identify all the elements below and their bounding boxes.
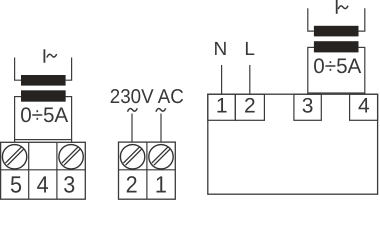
screw terminal 1 — [149, 145, 173, 169]
wire CT1 primary left lead — [15, 58, 21, 81]
wire A2 to device terminal 3 — [307, 93, 309, 94]
device pin number 1 — [216, 94, 228, 117]
screw terminal 2 — [120, 145, 144, 169]
wire CT2 primary right lead — [359, 8, 365, 31]
pin number 5 — [10, 172, 22, 198]
svg-text:4: 4 — [358, 94, 370, 117]
device pin number 4 — [358, 94, 370, 117]
CT2 secondary winding bar — [314, 41, 359, 52]
terminal block TB1 (5-4-3) — [1, 142, 86, 199]
wire mains to terminal 1 — [160, 114, 162, 143]
pin number 2 — [126, 172, 138, 198]
device enclosure box — [208, 94, 378, 194]
ammeter A1 box — [15, 90, 72, 139]
svg-text:230V AC: 230V AC — [110, 86, 184, 108]
pin number 1 — [155, 172, 167, 198]
device terminal 4 box — [350, 94, 378, 120]
value label 0÷5A (A2) — [313, 55, 361, 78]
wire N to device terminal 1 — [221, 65, 223, 94]
value label 0÷5A (A1) — [20, 104, 68, 127]
wire A1 to terminal 3 — [71, 140, 73, 143]
svg-text:5: 5 — [10, 172, 22, 198]
screw terminal 5 — [2, 145, 26, 169]
device terminal 2 box — [235, 94, 264, 120]
device terminal 3 box — [294, 94, 321, 120]
label I~ (CT1 measured current) — [44, 49, 56, 62]
label I~ (CT2 measured current) — [337, 0, 348, 14]
svg-text:N: N — [214, 39, 228, 60]
wire L to device terminal 2 — [249, 65, 251, 94]
wire A2 to device terminal 4 — [364, 93, 366, 94]
device terminal 1 box — [208, 94, 236, 120]
svg-text:3: 3 — [63, 172, 75, 198]
svg-text:0÷5A: 0÷5A — [20, 104, 68, 127]
svg-text:4: 4 — [37, 172, 49, 198]
svg-text:0÷5A: 0÷5A — [313, 55, 361, 78]
svg-text:1: 1 — [216, 94, 228, 117]
screw terminal 3 — [59, 145, 83, 169]
wire A1 to terminal 5 — [14, 140, 16, 143]
wire CT2 primary left lead — [308, 8, 314, 31]
ammeter A2 box — [308, 47, 365, 93]
wire CT1 primary right lead — [66, 58, 72, 81]
terminal block TB2 (2-1) — [119, 142, 176, 199]
wire mains to terminal 2 — [131, 114, 133, 143]
device pin number 3 — [302, 94, 314, 117]
svg-text:L: L — [244, 39, 255, 60]
CT1 secondary winding bar — [21, 90, 66, 101]
svg-text:2: 2 — [126, 172, 138, 198]
CT1 primary winding bar — [21, 75, 66, 86]
label ~ phase mark left — [128, 108, 138, 111]
svg-text:1: 1 — [155, 172, 167, 198]
label L (line) — [244, 39, 255, 60]
CT2 primary winding bar — [314, 26, 359, 37]
label N (neutral) — [214, 39, 228, 60]
label ~ phase mark right — [156, 108, 166, 111]
pin number 4 — [37, 172, 49, 198]
device pin number 2 — [244, 94, 256, 117]
svg-text:3: 3 — [302, 94, 314, 117]
pin number 3 — [63, 172, 75, 198]
label 230V AC — [110, 86, 184, 108]
svg-text:2: 2 — [244, 94, 256, 117]
